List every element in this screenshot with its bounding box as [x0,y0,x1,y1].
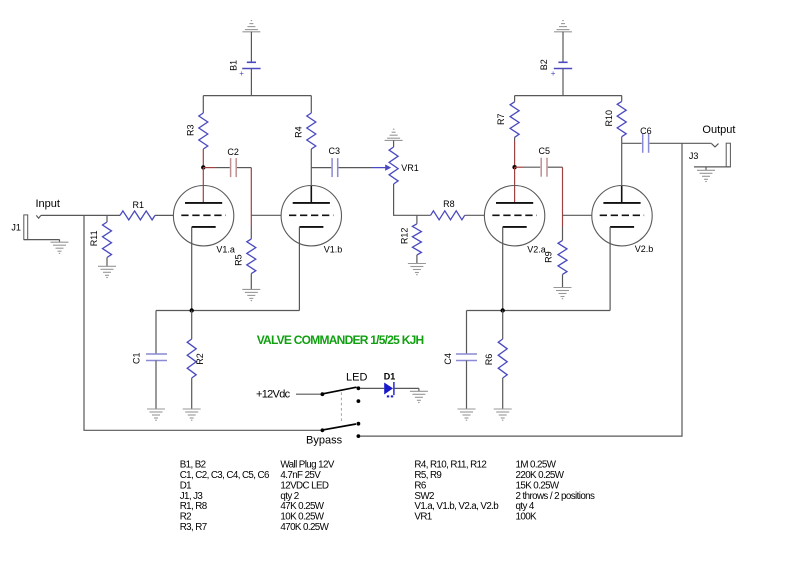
svg-text:B1: B1 [229,60,239,71]
capacitor C2 [230,158,232,177]
svg-text:J1, J3: J1, J3 [180,491,204,502]
svg-text:C1: C1 [132,352,142,364]
wire J3 sleeve to ground [694,166,730,168]
svg-text:R5, R9: R5, R9 [414,470,441,481]
svg-text:R3: R3 [185,125,195,137]
svg-text:R4: R4 [293,126,303,138]
svg-text:V1.a: V1.a [216,244,235,254]
svg-text:R5: R5 [233,254,243,266]
wire C6 node to C6 [622,142,642,144]
ground above VR1 [393,128,395,130]
ground at C4 [458,408,476,410]
svg-text:LED: LED [346,371,367,383]
capacitor C5 [540,158,542,177]
svg-text:2 throws / 2 positions: 2 throws / 2 positions [516,491,596,502]
ground at R2 [183,408,201,410]
wire C2 to grid node V1.b [237,167,251,169]
svg-text:D1: D1 [384,372,396,382]
wire VR1 to R8 node [394,184,431,215]
resistor R5 [250,227,252,239]
resistor R2 [191,311,193,340]
wire ground to B1 [250,32,252,63]
svg-text:V2.a: V2.a [527,244,546,254]
switch SW2 throw 2b [357,434,361,438]
switch SW2 throw 1a [357,386,361,390]
wire R8 to grid V2.a [465,214,485,216]
wire R9 to ground [562,274,564,287]
resistor R9 [562,227,564,241]
svg-text:+: + [239,69,244,78]
wire ground to VR1 [393,140,395,147]
jack J1 [24,215,28,240]
svg-text:J3: J3 [689,151,699,161]
svg-text:R6: R6 [414,480,426,491]
svg-text:470K 0.25W: 470K 0.25W [280,522,329,533]
wire R4 to plate V1.b [310,149,312,186]
triode V1.b [281,186,341,246]
svg-text:qty 4: qty 4 [516,501,535,512]
capacitor C6 [642,134,644,153]
wire cathode V2.b [609,227,611,311]
svg-text:SW2: SW2 [414,491,434,502]
jack J3 [712,144,719,147]
svg-text:V1.a, V1.b, V2.a, V2.b: V1.a, V1.b, V2.a, V2.b [414,501,499,512]
ground above B2 [562,20,564,22]
svg-text:10K 0.25W: 10K 0.25W [280,512,324,523]
node cathode rail stage 2 [501,308,505,312]
switch gang link [340,392,342,423]
svg-text:220K 0.25W: 220K 0.25W [516,470,565,481]
wire J1 sleeve to ground [24,239,60,241]
wire C4 to ground [466,361,468,410]
ground at R9 [554,287,572,289]
resistor R4 [310,96,312,113]
wire grid V2.b [563,214,592,216]
svg-text:J1: J1 [11,222,21,232]
svg-text:C3: C3 [329,146,341,156]
wire B1 to rail [250,69,252,96]
svg-text:R1, R8: R1, R8 [180,501,208,512]
wire R3 to plate node [202,149,204,167]
svg-text:C4: C4 [443,353,453,365]
wire cathode rail stage 2 [467,310,611,312]
wire node to C5 [515,166,524,168]
capacitor C4 [456,353,477,355]
svg-text:Output: Output [702,124,735,136]
svg-text:Bypass: Bypass [306,435,343,447]
potentiometer VR1 [389,147,398,184]
wire supply rail stage 1 [203,95,311,97]
svg-text:C2: C2 [227,147,239,157]
svg-text:C5: C5 [539,146,551,156]
svg-text:100K: 100K [516,512,538,523]
ground at J3 [697,169,715,171]
wire rail to C4 [466,311,468,355]
LED D1 [384,383,393,395]
node plate V1.a [201,165,205,169]
svg-text:+: + [551,69,556,78]
svg-text:+12Vdc: +12Vdc [256,389,291,401]
svg-text:D1: D1 [180,480,191,491]
svg-text:Input: Input [36,198,60,210]
svg-text:R10: R10 [604,110,614,127]
wire cathode V2.a [502,227,504,311]
svg-text:15K 0.25W: 15K 0.25W [516,480,560,491]
triode V1.a [173,186,233,246]
wire R12 to ground [416,255,418,264]
ground above B1 [251,20,253,22]
resistor R7 [514,96,516,102]
svg-text:47K 0.25W: 47K 0.25W [280,501,324,512]
wire output node to bypass throw [360,143,682,436]
wire R10 to C6 node [621,137,623,144]
triode V2.b [592,186,652,246]
resistor R3 [202,96,204,113]
svg-text:C1, C2, C3, C4, C5, C6: C1, C2, C3, C4, C5, C6 [180,470,270,481]
wire R2 to ground [191,378,193,409]
ground at D1 [410,390,428,392]
svg-text:R4, R10, R11, R12: R4, R10, R11, R12 [414,459,486,470]
wire plate lead V2.a [514,167,516,203]
svg-text:V1.b: V1.b [324,244,343,254]
wire +12Vdc to switch pole [296,393,322,395]
svg-text:Wall Plug 12V: Wall Plug 12V [280,459,334,470]
wire cathode V1.a [191,227,193,311]
wire input node to bypass pole [84,215,321,430]
wire B2 to rail [562,69,564,96]
wire grid V1.b [251,214,281,216]
wire plate lead V1.a [202,167,204,203]
wire throw to D1 [360,387,384,389]
svg-text:R6: R6 [484,354,494,366]
svg-text:B2: B2 [539,59,549,70]
svg-text:C6: C6 [640,126,652,136]
wire plate lead V2.b [621,143,623,186]
wire input to R1 [41,214,120,216]
wire R5 to ground [250,274,252,290]
ground at C1 [147,408,165,410]
svg-text:R12: R12 [400,228,410,245]
ground at R11 [98,265,116,267]
ground at R5 [242,288,260,290]
triode V2.a [484,186,544,246]
svg-text:R3, R7: R3, R7 [180,522,207,533]
battery B2 [558,61,567,63]
wire C6 to output jack [650,142,712,144]
resistor R1 [120,211,155,220]
ground at J1 [51,241,69,243]
svg-text:VALVE COMMANDER 1/5/25 KJH: VALVE COMMANDER 1/5/25 KJH [257,333,424,347]
svg-text:12VDC LED: 12VDC LED [280,480,328,491]
wire cathode rail stage 1 [156,310,299,312]
switch SW2 pole 1 [321,392,325,396]
wire cathode V1.b [298,227,300,311]
wire R6 to ground [502,378,504,409]
svg-text:R8: R8 [443,199,455,209]
wire C3 to VR1 [339,167,372,169]
svg-text:R2: R2 [180,512,191,523]
wire node to C2 [203,167,216,169]
svg-text:4.7nF 25V: 4.7nF 25V [280,470,321,481]
resistor R12 [416,215,418,224]
svg-text:R1: R1 [133,200,145,210]
wire supply rail stage 2 [515,95,622,97]
svg-text:1M 0.25W: 1M 0.25W [516,459,557,470]
wire C1 to ground [155,361,157,410]
svg-text:R2: R2 [195,353,205,365]
battery B1 [247,61,256,63]
capacitor C3 [331,158,333,177]
wire R1 to grid V1.a [155,214,173,216]
ground at R12 [408,263,426,265]
svg-text:R7: R7 [496,113,506,125]
resistor R10 [621,96,623,102]
wire D1 to ground [395,387,419,389]
svg-text:qty 2: qty 2 [280,491,298,502]
svg-text:V2.b: V2.b [635,244,654,254]
svg-text:VR1: VR1 [401,163,419,173]
node plate V2.a [512,165,516,169]
svg-text:VR1: VR1 [414,512,431,523]
resistor R6 [502,311,504,340]
svg-text:R11: R11 [89,230,99,246]
switch SW2 throw 2a [357,422,361,426]
wire ground to B2 [562,32,564,63]
wire rail to C1 [155,311,157,355]
resistor R11 [106,215,108,222]
wire R11 to ground [106,258,108,267]
node cathode rail stage 1 [190,308,194,312]
wire R7 to plate node [514,137,516,141]
wire C5 to grid node V2.b [548,166,563,168]
wiper arrow VR1 [371,167,388,169]
wire V1.b plate to C3 [311,167,331,169]
capacitor C1 [146,353,167,355]
svg-text:B1, B2: B1, B2 [180,459,206,470]
switch SW2 throw 1b [357,399,361,403]
switch SW2 pole 2 [321,428,325,432]
ground at R6 [494,408,512,410]
resistor R8 [431,211,465,220]
